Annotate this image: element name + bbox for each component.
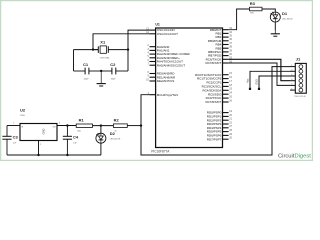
resistor R1 [76, 118, 92, 133]
svg-text:PIC16F877A: PIC16F877A [151, 150, 170, 154]
U1 left pins OSC1 OSC2 RA0-RA5 RE0-RE2 MCLR with numbers [146, 28, 190, 97]
wire R3 to D1 [262, 9, 275, 12]
node crystal right junction [127, 48, 129, 50]
wire OSC2 from crystal left [93, 34, 150, 50]
terminal Vcc [246, 71, 290, 90]
wire TX to J1 pin 4 [229, 59, 290, 80]
svg-text:R3: R3 [250, 1, 256, 6]
svg-text:1uF: 1uF [73, 142, 77, 144]
wire R2 to MCLR node [127, 125, 141, 127]
node C1 C2 junction [100, 70, 102, 72]
svg-text:U1: U1 [155, 22, 160, 26]
ground D1 [271, 31, 280, 37]
capacitor C3 [2, 126, 18, 156]
resistor R2 [113, 118, 127, 133]
LED D2 [96, 126, 121, 155]
svg-text:2: 2 [40, 144, 41, 146]
node ground bus C4 [66, 154, 68, 156]
node R1 R2 D2 junction [100, 124, 102, 126]
svg-text:D1: D1 [282, 11, 288, 16]
wire reset run to J1 pin 1 [141, 67, 290, 155]
svg-text:GND: GND [42, 128, 46, 134]
svg-text:4: 4 [291, 79, 292, 81]
voltage regulator U2 7805 [20, 108, 57, 141]
node crystal left junction [92, 48, 94, 50]
U1 value label PIC16F877A [151, 150, 170, 154]
svg-text:2: 2 [291, 70, 292, 72]
svg-text:RD7/PSP7: RD7/PSP7 [207, 137, 222, 141]
crystal X1 [93, 39, 128, 59]
op-amp U1 PIC16F877A body [156, 28, 223, 148]
wire crystal top rail [74, 49, 99, 51]
svg-text:1: 1 [291, 65, 292, 67]
U1 reference label [155, 22, 160, 26]
ground crystal caps [97, 71, 106, 86]
wire RB0 to R3 [229, 9, 250, 30]
svg-text:X1: X1 [100, 39, 106, 44]
node VO C4 junction [66, 124, 68, 126]
svg-text:VO: VO [53, 126, 56, 128]
node ground bus U2 [37, 154, 39, 156]
svg-text:7805: 7805 [20, 115, 26, 117]
svg-text:3: 3 [291, 74, 292, 76]
svg-text:C1: C1 [83, 62, 89, 67]
svg-text:1: 1 [13, 123, 14, 125]
svg-text:LED-BLUE: LED-BLUE [282, 19, 293, 21]
svg-text:C3: C3 [13, 134, 19, 139]
wire RX to J1 pin 5 [229, 63, 290, 85]
capacitor C2 [101, 62, 128, 81]
svg-text:RC7/RX/DT: RC7/RX/DT [205, 100, 221, 104]
svg-text:33pF: 33pF [84, 78, 90, 80]
svg-text:RC7/RX/DT: RC7/RX/DT [205, 61, 221, 65]
svg-text:C4: C4 [73, 134, 79, 139]
svg-text:3: 3 [59, 123, 60, 125]
wire U2 ground pin [39, 141, 42, 156]
svg-text:R1: R1 [79, 118, 85, 123]
svg-text:RE2/AN7/CS: RE2/AN7/CS [157, 79, 175, 83]
svg-text:33pF: 33pF [111, 78, 117, 80]
border frame [1, 1, 313, 161]
svg-text:U2: U2 [20, 108, 26, 113]
node MCLR R2 reset junction [140, 124, 142, 126]
svg-text:6: 6 [291, 88, 292, 90]
CircuitDigest logo [278, 153, 311, 159]
svg-text:LED-BLUE: LED-BLUE [110, 138, 121, 140]
svg-text:OSC2/CLKOUT: OSC2/CLKOUT [157, 32, 178, 36]
wire VO output [57, 123, 76, 126]
capacitor C4 [63, 126, 79, 156]
wire crystal left rail [73, 50, 75, 71]
svg-text:1uF: 1uF [13, 142, 17, 144]
svg-text:RA5/AN4/SS/C2OUT: RA5/AN4/SS/C2OUT [157, 63, 186, 67]
svg-text:GND: GND [255, 79, 258, 85]
svg-text:5: 5 [291, 84, 292, 86]
wire MCLR [141, 95, 150, 126]
LED D1 [270, 11, 293, 30]
svg-text:TBLOCK-I6: TBLOCK-I6 [294, 96, 306, 98]
svg-text:C2: C2 [110, 62, 116, 67]
capacitor C1 [74, 62, 102, 81]
connector J1 TBLOCK-I6 [290, 56, 306, 98]
wire R1 to node [93, 125, 114, 127]
resistor R3 [250, 1, 263, 15]
U1 right pins RB0-RB7 TX RX RC0-RC7 RD0-RD7 with numbers [195, 28, 233, 142]
terminal GND [255, 76, 290, 90]
svg-text:R2: R2 [114, 118, 120, 123]
wire VI input [7, 123, 20, 126]
svg-text:J1: J1 [296, 56, 301, 61]
wire ground bus [7, 154, 101, 156]
svg-text:MCLR/Vpp/THV: MCLR/Vpp/THV [157, 93, 179, 97]
svg-text:CRYSTAL: CRYSTAL [100, 56, 111, 59]
wire OSC1 from crystal right [128, 30, 150, 71]
svg-text:CircuitDigest: CircuitDigest [278, 153, 311, 159]
